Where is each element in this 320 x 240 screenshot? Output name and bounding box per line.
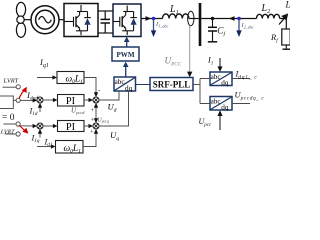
svg-text:dq: dq — [221, 104, 229, 112]
junction dot Cf — [211, 17, 214, 20]
summing junction S1 — [37, 97, 43, 103]
I1d feedback stub — [39, 107, 41, 113]
svg-text:+: + — [91, 107, 95, 114]
svg-text:L: L — [285, 0, 291, 10]
wire bus to right — [201, 18, 256, 20]
wire Uq to dq/abc — [99, 91, 129, 126]
summing junction S3 — [37, 123, 43, 129]
blue arrow I2_abc — [236, 19, 241, 37]
w0L1 block (top) — [57, 72, 84, 84]
wire GSC output — [141, 18, 163, 20]
switch S2 red arm — [19, 125, 24, 130]
navy arrow dq-abc to PWM — [123, 62, 129, 77]
switch S1 top contact — [3, 86, 17, 88]
svg-text:+: + — [91, 117, 95, 124]
arrow Upcc into abc/dq — [219, 114, 221, 130]
inductor L2 — [257, 14, 280, 18]
box at left edge — [0, 96, 13, 109]
svg-text:+: + — [90, 129, 94, 136]
wire sum1 to PI1 — [43, 99, 54, 101]
inductor L1 — [163, 14, 189, 19]
wire PI2 to sum4 — [84, 125, 90, 127]
svg-text:= 0: = 0 — [2, 113, 15, 123]
svg-text:LVRT: LVRT — [3, 78, 19, 85]
capacitor Cf — [208, 19, 217, 42]
node I1 measurement (blue dot) — [152, 17, 156, 21]
wind turbine blades — [16, 2, 25, 37]
navy arrow converter gate drive (PWM to GSC) — [124, 37, 130, 47]
blue arrow I1_abc — [151, 19, 156, 37]
PLL output wire — [193, 84, 200, 86]
svg-text:abc: abc — [115, 78, 125, 86]
summing junction S4 — [93, 123, 99, 129]
PWM block — [112, 47, 139, 61]
diagonal arrow to grid — [279, 19, 284, 25]
grid-side converter box — [113, 4, 141, 37]
DC-link rails — [98, 11, 113, 33]
output wire Idq1_c — [232, 78, 250, 80]
IGBT Q1 with diode — [64, 5, 91, 35]
I1q feedback stub — [39, 133, 41, 138]
arrow current direction left — [229, 16, 235, 21]
wire switch2 to sum3 — [20, 125, 34, 127]
transform block abc/dq (voltage) — [210, 97, 232, 112]
PI block 2 — [58, 121, 85, 132]
PT oval — [188, 11, 194, 25]
wire dq/abc to SRF-PLL — [136, 84, 151, 86]
svg-text:SRF-PLL: SRF-PLL — [153, 80, 191, 90]
wire PI1 to sum2 — [84, 99, 90, 101]
theta distribution wire — [200, 79, 210, 104]
svg-text:dq: dq — [221, 79, 229, 87]
Upccd feedforward stub — [95, 107, 97, 113]
gray measurement wire U_PCC — [189, 26, 191, 74]
PI block 1 — [58, 95, 85, 107]
wire switch to sum1 — [20, 99, 34, 101]
shaft wire — [24, 19, 31, 21]
coupling wire w0L1 bottom to sum4 — [83, 133, 96, 147]
termination bar — [283, 48, 291, 50]
wire oval to bus — [189, 18, 199, 20]
svg-text:PI: PI — [66, 96, 76, 107]
SRF-PLL block — [150, 78, 193, 91]
PCC bus bar — [199, 3, 202, 46]
Upccq feedforward stub — [95, 110, 97, 120]
IGBT Q2 with diode — [113, 6, 137, 36]
wire sum3 to PI2 — [43, 125, 54, 127]
wire gen to MSC — [59, 19, 64, 21]
machine-side converter box — [64, 4, 98, 37]
transform block dq/abc (controller) — [114, 77, 136, 92]
resistor Rf — [282, 29, 290, 45]
transform block abc/dq (current) — [210, 72, 232, 87]
arrow Iq1 into w0L1 — [37, 77, 54, 79]
svg-text:LVRT: LVRT — [0, 130, 15, 136]
svg-text:abc: abc — [211, 98, 221, 106]
wire Ud to dq/abc — [99, 91, 119, 100]
svg-text:abc: abc — [211, 73, 221, 81]
arrow current direction right — [146, 16, 152, 21]
summing junction S2 — [93, 97, 99, 103]
switch S1 red arm — [19, 90, 24, 98]
arrow I1 into abc/dq — [219, 58, 221, 69]
generator G1 — [31, 6, 59, 34]
coupling wire w0L1 to sum2 — [84, 78, 96, 94]
svg-text:PWM: PWM — [116, 51, 134, 59]
capacitor Cdc — [101, 11, 111, 33]
node I2 measurement (blue dot) — [237, 17, 241, 21]
arrow into SRF-PLL — [187, 72, 192, 78]
svg-text:PI: PI — [66, 122, 76, 133]
w0L1 block (bottom) — [56, 141, 84, 154]
arrow Id1 into w0L1 bottom — [37, 146, 52, 148]
wire L2 to corner — [280, 19, 287, 30]
output wire Upccdq_c — [232, 103, 250, 105]
